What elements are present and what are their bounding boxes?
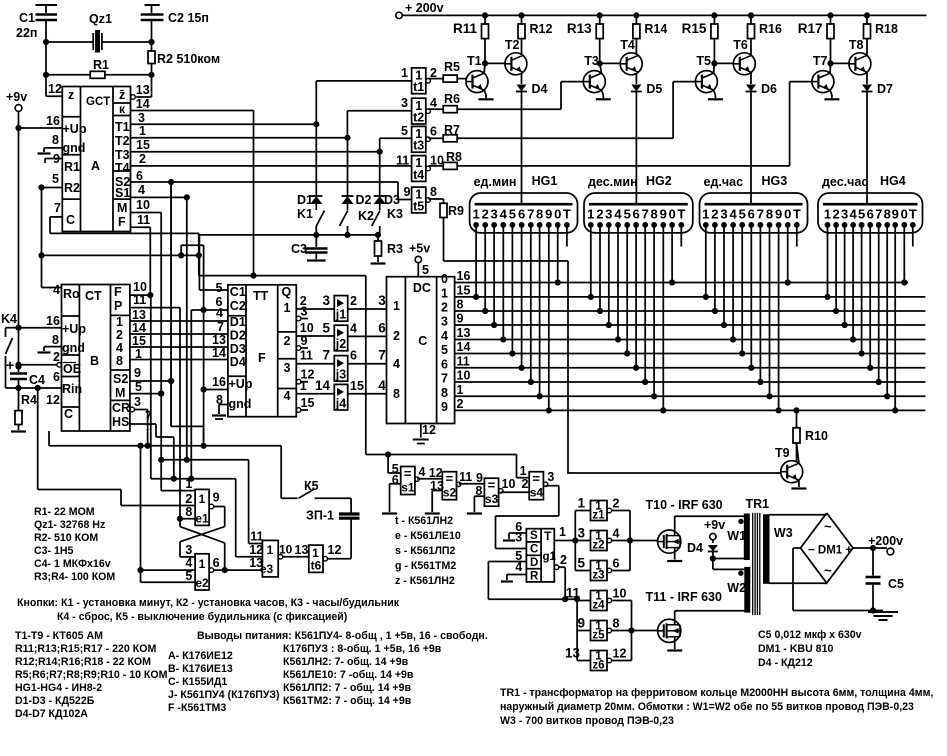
wire bbox=[731, 225, 736, 342]
wire bbox=[348, 335, 387, 337]
text buttons note bbox=[17, 597, 400, 623]
wire row 2 bbox=[455, 310, 926, 312]
svg-text:R12;R14;R16;R18 - 22 КОМ: R12;R14;R16;R18 - 22 КОМ bbox=[15, 656, 151, 668]
svg-text:+5v: +5v bbox=[409, 242, 430, 256]
svg-text:14: 14 bbox=[212, 346, 226, 360]
resistor R2 bbox=[148, 42, 220, 75]
svg-text:4: 4 bbox=[350, 321, 357, 335]
ground bbox=[38, 133, 63, 154]
svg-text:11: 11 bbox=[300, 349, 313, 363]
diode D7 bbox=[862, 82, 894, 204]
svg-text:5: 5 bbox=[52, 172, 59, 186]
svg-text:7: 7 bbox=[322, 348, 330, 363]
wire bbox=[138, 443, 195, 582]
svg-text:t6: t6 bbox=[311, 559, 322, 573]
svg-text:4: 4 bbox=[138, 183, 145, 197]
svg-text:F: F bbox=[114, 285, 122, 299]
text C5 DM1 D4 values bbox=[758, 629, 862, 669]
svg-text:6: 6 bbox=[53, 370, 60, 384]
svg-text:F -К561ТМ3: F -К561ТМ3 bbox=[168, 702, 226, 714]
wire bbox=[912, 225, 914, 247]
svg-text:+: + bbox=[6, 357, 14, 373]
wire bbox=[347, 96, 411, 138]
logic buffer t4 bbox=[396, 154, 444, 182]
svg-text:8: 8 bbox=[766, 207, 773, 222]
svg-text:z̄: z̄ bbox=[119, 88, 125, 102]
svg-text:TT: TT bbox=[253, 289, 269, 303]
wire bbox=[643, 225, 648, 385]
svg-text:14: 14 bbox=[315, 378, 331, 393]
logic gate s4 bbox=[529, 470, 559, 500]
svg-text:11: 11 bbox=[457, 354, 470, 368]
capacitor C3 bbox=[291, 235, 328, 261]
svg-text:к: к bbox=[119, 102, 126, 116]
transformer TR1 core bbox=[746, 497, 770, 615]
svg-text:D6: D6 bbox=[761, 82, 777, 96]
wire D3 pin13 bbox=[212, 333, 226, 347]
text gate key bbox=[395, 515, 461, 587]
diode D3 bbox=[374, 193, 400, 207]
svg-text:CT: CT bbox=[85, 289, 102, 303]
svg-text:11: 11 bbox=[459, 470, 472, 484]
capacitor C4 bbox=[6, 357, 45, 388]
svg-text:t - К561ЛН2: t - К561ЛН2 bbox=[395, 515, 453, 527]
wire bbox=[135, 410, 148, 446]
wire T3 pin15 bbox=[131, 138, 383, 154]
svg-text:7: 7 bbox=[441, 372, 448, 386]
svg-text:CR: CR bbox=[112, 401, 130, 415]
svg-text:R9: R9 bbox=[448, 204, 464, 218]
tube HG4 bbox=[818, 174, 923, 233]
svg-text:A: A bbox=[91, 159, 100, 173]
svg-text:C5: C5 bbox=[888, 577, 904, 591]
svg-text:− DM1 +: − DM1 + bbox=[808, 545, 852, 557]
svg-text:Q: Q bbox=[282, 285, 292, 299]
logic buffer j4 bbox=[315, 378, 386, 411]
wire Rin pin6 bbox=[6, 370, 62, 391]
svg-text:s1: s1 bbox=[401, 481, 415, 495]
svg-text:2: 2 bbox=[613, 497, 620, 511]
node label ед.час bbox=[704, 175, 744, 189]
svg-text:ед.мин: ед.мин bbox=[474, 175, 517, 189]
wire F pin11 bbox=[131, 213, 151, 295]
svg-text:D4: D4 bbox=[532, 82, 548, 96]
resistor R15 bbox=[682, 13, 718, 39]
svg-text:4: 4 bbox=[441, 329, 448, 343]
svg-text:s4: s4 bbox=[530, 486, 544, 500]
svg-text:2: 2 bbox=[284, 334, 291, 348]
svg-text:T3: T3 bbox=[115, 148, 130, 162]
wire g1 T out bbox=[554, 511, 590, 571]
svg-text:+9v: +9v bbox=[704, 518, 725, 532]
svg-text:M: M bbox=[117, 201, 127, 215]
svg-text:1: 1 bbox=[267, 543, 274, 557]
wire bbox=[873, 611, 883, 613]
wire pin6 bbox=[503, 520, 526, 541]
svg-text:D2: D2 bbox=[230, 329, 246, 343]
svg-text:+Up: +Up bbox=[229, 377, 253, 391]
svg-text:2: 2 bbox=[441, 301, 448, 315]
svg-text:7: 7 bbox=[642, 207, 649, 222]
wire bbox=[510, 225, 515, 356]
wire bbox=[42, 254, 199, 256]
wire bbox=[199, 276, 366, 455]
wire bbox=[169, 182, 174, 426]
svg-text:4: 4 bbox=[216, 306, 223, 320]
wire bbox=[316, 66, 411, 196]
logic buffer j1 bbox=[322, 293, 386, 322]
node pin 16 bbox=[457, 269, 471, 283]
svg-text:8: 8 bbox=[613, 617, 620, 631]
svg-text:16: 16 bbox=[46, 314, 60, 328]
wire bbox=[670, 225, 675, 285]
svg-text:12: 12 bbox=[48, 82, 62, 96]
logic buffer t5 bbox=[404, 185, 438, 213]
wire row 9 bbox=[455, 409, 926, 411]
wire bbox=[680, 225, 682, 247]
node pin6 bbox=[216, 295, 223, 309]
svg-text:10: 10 bbox=[300, 321, 314, 335]
svg-text:13: 13 bbox=[136, 83, 150, 97]
wire bbox=[159, 213, 196, 491]
svg-text:8: 8 bbox=[430, 185, 437, 199]
wire bbox=[49, 431, 281, 448]
svg-text:z6: z6 bbox=[592, 660, 604, 672]
wire bbox=[496, 486, 559, 549]
wire bbox=[517, 455, 530, 479]
svg-text:3: 3 bbox=[322, 293, 330, 308]
svg-text:22п: 22п bbox=[16, 26, 37, 40]
buzzer ZP-1 bbox=[306, 509, 360, 523]
svg-text:j4: j4 bbox=[335, 396, 346, 410]
svg-text:HS: HS bbox=[112, 415, 129, 429]
resistor R8 bbox=[428, 82, 812, 170]
svg-text:j2: j2 bbox=[335, 337, 346, 351]
svg-text:15: 15 bbox=[350, 379, 364, 393]
svg-text:К561ЛН2: 7- общ. 14 +9в: К561ЛН2: 7- общ. 14 +9в bbox=[283, 656, 409, 668]
svg-text:9: 9 bbox=[775, 207, 782, 222]
svg-text:gnd: gnd bbox=[63, 141, 86, 155]
wire bbox=[796, 225, 798, 247]
svg-text:4: 4 bbox=[419, 465, 426, 479]
node pin 14 bbox=[457, 340, 471, 354]
svg-text:R: R bbox=[530, 571, 539, 583]
wire bbox=[842, 225, 847, 328]
wire bbox=[199, 235, 228, 290]
wire bbox=[138, 568, 195, 573]
crystal Qz1 bbox=[89, 12, 112, 52]
svg-text:1: 1 bbox=[199, 557, 206, 571]
logic buffer z5 bbox=[577, 616, 619, 642]
svg-text:C1: C1 bbox=[230, 285, 246, 299]
svg-text:3: 3 bbox=[515, 531, 522, 545]
wire bbox=[588, 225, 593, 300]
svg-text:7: 7 bbox=[875, 207, 882, 222]
svg-text:R12: R12 bbox=[530, 22, 553, 36]
wire pin13 bbox=[130, 308, 228, 322]
svg-text:D1: D1 bbox=[230, 315, 246, 329]
diode D5 bbox=[631, 82, 663, 204]
svg-text:F: F bbox=[118, 215, 126, 229]
svg-text:12: 12 bbox=[422, 423, 436, 437]
wire bbox=[169, 182, 174, 426]
svg-text:8: 8 bbox=[457, 298, 464, 312]
wire D4 pin14 bbox=[212, 346, 226, 360]
wire bbox=[136, 75, 151, 97]
svg-text:ед.час: ед.час bbox=[704, 175, 744, 189]
wire k pin14 bbox=[131, 97, 254, 111]
svg-text:T: T bbox=[677, 207, 685, 222]
svg-text:s2: s2 bbox=[443, 486, 457, 500]
ground bbox=[868, 612, 898, 620]
svg-text:g - К561ТМ2: g - К561ТМ2 bbox=[395, 560, 456, 572]
svg-text:9: 9 bbox=[301, 334, 308, 348]
wire T2 pin1 bbox=[131, 124, 351, 140]
svg-text:OE: OE bbox=[63, 362, 81, 376]
wire bbox=[501, 225, 506, 342]
wire Q pin11 bbox=[296, 349, 334, 364]
wire row 7 bbox=[455, 381, 926, 383]
svg-text:11: 11 bbox=[250, 529, 263, 543]
wire M pin10 bbox=[131, 198, 162, 213]
wire S2 pin6 bbox=[131, 169, 412, 200]
svg-text:8: 8 bbox=[536, 207, 543, 222]
svg-text:W1: W1 bbox=[727, 529, 746, 543]
svg-text:10: 10 bbox=[279, 543, 293, 557]
capacitor C5 bbox=[866, 548, 905, 611]
resistor R6 bbox=[428, 82, 583, 113]
svg-text:D3: D3 bbox=[230, 342, 246, 356]
wire bbox=[769, 513, 827, 515]
svg-text:C: C bbox=[530, 544, 538, 556]
svg-text:~: ~ bbox=[824, 519, 832, 534]
svg-text:3: 3 bbox=[378, 293, 386, 308]
svg-text:12: 12 bbox=[328, 543, 342, 557]
wire Q pin2 bbox=[296, 294, 334, 309]
wire OE pin2 bbox=[16, 350, 62, 367]
svg-text:P: P bbox=[114, 299, 122, 313]
svg-text:1: 1 bbox=[702, 207, 709, 222]
resistor R13 bbox=[567, 13, 603, 39]
wire Ro pin4 bbox=[42, 283, 62, 297]
node label дес.час bbox=[822, 175, 868, 189]
wire bbox=[171, 426, 204, 445]
wire row 6 bbox=[455, 367, 926, 369]
rectifier DM1 bbox=[801, 513, 854, 583]
svg-text:J- К561ПУ4 (К176ПУЗ): J- К561ПУ4 (К176ПУЗ) bbox=[168, 689, 280, 701]
node pin 13 bbox=[457, 326, 471, 340]
svg-text:R18: R18 bbox=[875, 22, 898, 36]
+5v supply bbox=[409, 242, 430, 278]
logic buffer t1 bbox=[412, 66, 437, 94]
text power pins bbox=[197, 630, 488, 707]
wire D1 pin4 bbox=[216, 306, 223, 320]
wire bbox=[43, 39, 154, 44]
resistor R9 bbox=[428, 199, 568, 473]
svg-text:t4: t4 bbox=[413, 168, 424, 182]
svg-text:11: 11 bbox=[133, 293, 146, 307]
svg-text:12: 12 bbox=[613, 647, 627, 661]
svg-text:TR1: TR1 bbox=[746, 497, 770, 511]
transistor T5 bbox=[695, 38, 755, 99]
svg-text:K2: K2 bbox=[358, 209, 374, 223]
svg-text:C4: C4 bbox=[29, 373, 45, 387]
svg-text:z4: z4 bbox=[592, 600, 605, 612]
wire HS pin7 bbox=[145, 409, 152, 423]
svg-text:+ 200v: + 200v bbox=[405, 1, 444, 15]
svg-text:0: 0 bbox=[668, 207, 675, 222]
wire bbox=[606, 225, 611, 328]
svg-text:S1: S1 bbox=[115, 186, 130, 200]
svg-text:12: 12 bbox=[46, 393, 60, 407]
wire bbox=[834, 225, 839, 314]
svg-text:9: 9 bbox=[476, 471, 483, 485]
svg-text:s - К561ЛП2: s - К561ЛП2 bbox=[395, 545, 455, 557]
svg-text:C3- 1Н5: C3- 1Н5 bbox=[34, 545, 74, 557]
svg-text:K3: K3 bbox=[387, 207, 403, 221]
svg-text:T: T bbox=[544, 529, 552, 543]
wire Q pin10 bbox=[296, 321, 334, 336]
svg-text:3: 3 bbox=[605, 207, 612, 222]
wire g1 Q inv out bbox=[488, 553, 590, 661]
svg-text:5: 5 bbox=[216, 281, 223, 295]
wire S1 pin4 bbox=[131, 183, 190, 200]
switch K5 bbox=[281, 446, 351, 513]
wire bbox=[251, 111, 256, 279]
wire bbox=[199, 232, 380, 237]
svg-text:9: 9 bbox=[213, 491, 220, 505]
svg-text:2: 2 bbox=[482, 207, 489, 222]
node pin 1 bbox=[457, 383, 464, 397]
transformer TR1 winding W3 bbox=[764, 515, 793, 584]
svg-text:наружный диаметр 20мм. Обмотк: наружный диаметр 20мм. Обмотки : W1=W2 о… bbox=[500, 701, 914, 713]
svg-text:3: 3 bbox=[490, 207, 497, 222]
svg-text:z1: z1 bbox=[592, 510, 605, 522]
logic gate s1 bbox=[382, 455, 443, 514]
switch K4 bbox=[1, 312, 19, 388]
text parts list left bbox=[34, 506, 115, 583]
wire M pin5 bbox=[130, 380, 164, 396]
svg-text:W2: W2 bbox=[727, 581, 746, 595]
svg-text:13: 13 bbox=[212, 333, 226, 347]
svg-text:C3: C3 bbox=[291, 242, 307, 256]
node pin12 bbox=[296, 368, 314, 384]
wire bbox=[825, 225, 830, 300]
wire bbox=[885, 225, 890, 399]
wire bbox=[348, 363, 387, 365]
tube HG1 bbox=[470, 174, 578, 233]
wire D2 pin7 bbox=[217, 320, 224, 334]
logic buffer z1 bbox=[577, 496, 619, 522]
op-amp U4 IC C K155ID1 decoder bbox=[387, 272, 455, 424]
ground bbox=[38, 333, 62, 353]
transistor T7 bbox=[812, 38, 871, 99]
svg-text:Выводы питания: К561ПУ4- 8-общ: Выводы питания: К561ПУ4- 8-общ , 1 +5в, … bbox=[197, 630, 488, 642]
svg-text:Qz1- 32768 Hz: Qz1- 32768 Hz bbox=[34, 519, 105, 531]
+200v supply bbox=[868, 534, 903, 555]
svg-text:7: 7 bbox=[217, 320, 224, 334]
tube HG2 bbox=[584, 174, 693, 233]
svg-text:T4: T4 bbox=[620, 38, 635, 52]
svg-text:T5: T5 bbox=[696, 54, 711, 68]
svg-text:К561ТМ2: 7 - общ. 14 +9в: К561ТМ2: 7 - общ. 14 +9в bbox=[283, 695, 412, 707]
svg-text:3: 3 bbox=[841, 207, 848, 222]
svg-text:1: 1 bbox=[457, 383, 464, 397]
transistor T3 bbox=[583, 38, 642, 99]
svg-text:12: 12 bbox=[249, 543, 263, 557]
svg-text:11: 11 bbox=[566, 586, 581, 601]
svg-text:B- К176ИЕ13: B- К176ИЕ13 bbox=[168, 663, 233, 675]
svg-text:~: ~ bbox=[824, 563, 832, 578]
svg-text:13: 13 bbox=[295, 543, 309, 557]
svg-text:R16: R16 bbox=[759, 22, 782, 36]
svg-text:9: 9 bbox=[545, 207, 552, 222]
svg-text:HG3: HG3 bbox=[762, 174, 788, 188]
wire bbox=[151, 295, 263, 557]
logic buffer t2 bbox=[412, 96, 437, 124]
text components column bbox=[15, 630, 168, 720]
svg-text:T8: T8 bbox=[849, 38, 864, 52]
svg-text:R1: R1 bbox=[64, 160, 80, 174]
svg-text:9: 9 bbox=[457, 312, 464, 326]
svg-text:4: 4 bbox=[613, 527, 620, 541]
svg-text:C- К155ИД1: C- К155ИД1 bbox=[168, 676, 227, 688]
resistor R17 bbox=[798, 13, 834, 39]
svg-text:D5: D5 bbox=[646, 82, 662, 96]
wire bbox=[537, 225, 542, 399]
svg-text:7: 7 bbox=[527, 207, 534, 222]
wire bbox=[184, 197, 189, 462]
svg-text:T2: T2 bbox=[505, 38, 520, 52]
diode D1 bbox=[297, 193, 322, 207]
wire bbox=[347, 138, 349, 196]
svg-text:2: 2 bbox=[350, 294, 357, 308]
svg-text:9: 9 bbox=[441, 400, 448, 414]
svg-text:Rin: Rin bbox=[62, 382, 82, 396]
wire bbox=[121, 505, 195, 507]
wire row 5 bbox=[455, 353, 926, 355]
svg-text:2: 2 bbox=[116, 328, 123, 342]
svg-text:T7: T7 bbox=[813, 54, 828, 68]
svg-text:6: 6 bbox=[430, 124, 437, 138]
svg-text:4: 4 bbox=[849, 207, 857, 222]
svg-text:8: 8 bbox=[52, 333, 59, 347]
svg-text:+Up: +Up bbox=[63, 122, 87, 136]
svg-text:T10 - IRF 630: T10 - IRF 630 bbox=[646, 498, 723, 512]
svg-text:R5: R5 bbox=[444, 60, 460, 74]
svg-text:B: B bbox=[90, 354, 99, 368]
svg-text:R1: R1 bbox=[93, 58, 109, 72]
logic gate e3 bbox=[249, 529, 292, 577]
resistor R18 bbox=[864, 13, 898, 39]
svg-text:4: 4 bbox=[378, 378, 386, 393]
svg-text:4: 4 bbox=[284, 389, 291, 403]
svg-text:11: 11 bbox=[396, 154, 409, 168]
svg-text:10: 10 bbox=[133, 280, 147, 294]
svg-text:9: 9 bbox=[577, 616, 585, 631]
svg-text:6: 6 bbox=[632, 207, 639, 222]
+9v supply bbox=[704, 518, 725, 543]
svg-text:3: 3 bbox=[577, 526, 585, 541]
node label ед.мин bbox=[474, 175, 517, 189]
transistor T10 bbox=[646, 498, 747, 561]
ground bbox=[212, 393, 228, 419]
svg-text:5: 5 bbox=[185, 569, 192, 583]
svg-text:HG1-HG4 - ИН8-2: HG1-HG4 - ИН8-2 bbox=[15, 682, 102, 694]
node pin 15 bbox=[457, 283, 471, 297]
logic gate e2 bbox=[185, 543, 219, 590]
svg-text:6: 6 bbox=[613, 557, 620, 571]
